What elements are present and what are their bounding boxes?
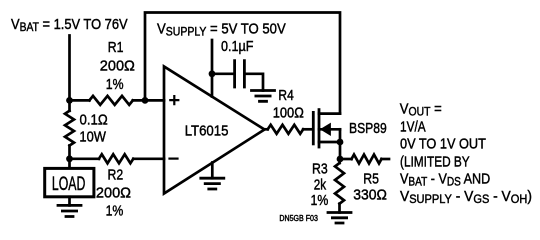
node: V+ / cap junction [209, 70, 216, 77]
node: output junction [337, 156, 344, 163]
svg-text:100Ω: 100Ω [273, 104, 304, 121]
wire R4 to MOSFET gate [303, 128, 312, 131]
svg-text:200Ω: 200Ω [96, 185, 131, 201]
ground under LOAD [58, 205, 81, 216]
svg-text:0.1Ω: 0.1Ω [80, 110, 108, 127]
svg-text:R1: R1 [108, 39, 124, 55]
op-amp U1 LT6015 triangle [164, 67, 265, 194]
svg-text:LOAD: LOAD [52, 173, 85, 195]
wire sense resistor bottom to load node [68, 146, 71, 168]
svg-text:1%: 1% [311, 192, 329, 208]
resistor R2 200 ohm [99, 154, 133, 163]
transistor Q1 drain stub [319, 112, 340, 115]
ground of capacitor C1 [252, 91, 275, 102]
svg-text:VOUT =: VOUT = [400, 100, 442, 119]
svg-text:2k: 2k [314, 176, 327, 193]
svg-text:(LIMITED BY: (LIMITED BY [400, 153, 470, 170]
svg-text:R2: R2 [108, 167, 124, 183]
svg-text:1V/A: 1V/A [400, 118, 426, 135]
LOAD box [45, 168, 94, 196]
op-amp plus input mark [170, 96, 178, 104]
resistor R1 200 ohm [89, 96, 132, 105]
svg-text:200Ω: 200Ω [100, 58, 135, 74]
svg-text:R4: R4 [278, 87, 294, 104]
transistor Q1 channel bar [318, 110, 321, 147]
svg-text:1%: 1% [106, 76, 124, 92]
op-amp V+ pin wire from VSUPPLY stub [211, 40, 214, 97]
wire R1 to +input node [133, 99, 164, 102]
svg-text:R3: R3 [312, 160, 328, 176]
wire R2 to -input [133, 157, 164, 160]
ground of op-amp [201, 178, 224, 189]
wire capacitor right plate to ground [246, 74, 263, 91]
svg-text:0.1µF: 0.1µF [221, 37, 253, 54]
wire R3 to ground [338, 204, 341, 213]
wire output node to R3 [338, 159, 341, 163]
wire node A to R1 [70, 99, 90, 102]
wire source down to output node [339, 129, 342, 159]
svg-text:DN5GB F03: DN5GB F03 [279, 214, 318, 224]
transistor Q1 source stub [319, 141, 340, 144]
node: MOSFET source junction [337, 139, 344, 146]
wire load node to R2 [70, 157, 99, 160]
ground of R3 [328, 213, 351, 224]
op-amp minus input mark [170, 158, 178, 160]
capacitor C1 0.1uF plates [235, 61, 245, 87]
resistor R5 330 ohm [352, 155, 382, 164]
transistor Q1 body arrow [321, 124, 331, 136]
wire cap node to capacitor C1 left plate [212, 72, 233, 75]
wire +input node up and over to MOSFET drain [145, 13, 340, 114]
svg-text:330Ω: 330Ω [353, 187, 387, 204]
svg-text:VBAT - VDS AND: VBAT - VDS AND [400, 169, 490, 189]
resistor RS 0.1ohm sense (vertical) [65, 111, 74, 146]
svg-text:LT6015: LT6015 [185, 122, 229, 139]
transistor Q1 BSP89 gate bar [312, 112, 315, 143]
svg-text:1%: 1% [106, 203, 124, 219]
svg-text:0V TO 1V OUT: 0V TO 1V OUT [400, 134, 486, 151]
wire output node to R5 [340, 158, 352, 161]
transistor Q1 body stub [319, 128, 340, 131]
svg-text:VSUPPLY - VGS - VOH): VSUPPLY - VGS - VOH) [400, 189, 532, 207]
wire LOAD box to ground [68, 197, 71, 206]
op-amp V- pin wire [211, 163, 214, 179]
node: sense top junction [66, 97, 73, 104]
resistor R4 100 ohm from op-amp output [268, 125, 304, 134]
svg-text:R5: R5 [363, 170, 379, 186]
wire R5 to VOUT terminal [382, 158, 390, 161]
wire VBAT vertical from label down to sense node [68, 36, 71, 111]
resistor R3 2k [335, 163, 344, 204]
svg-text:VBAT = 1.5V TO 76V: VBAT = 1.5V TO 76V [11, 15, 128, 34]
node: sense bottom junction [66, 155, 73, 162]
wire op-amp output to R4 [265, 128, 268, 131]
svg-text:10W: 10W [79, 127, 106, 144]
node: +input junction [142, 97, 149, 104]
svg-text:BSP89: BSP89 [349, 120, 387, 136]
